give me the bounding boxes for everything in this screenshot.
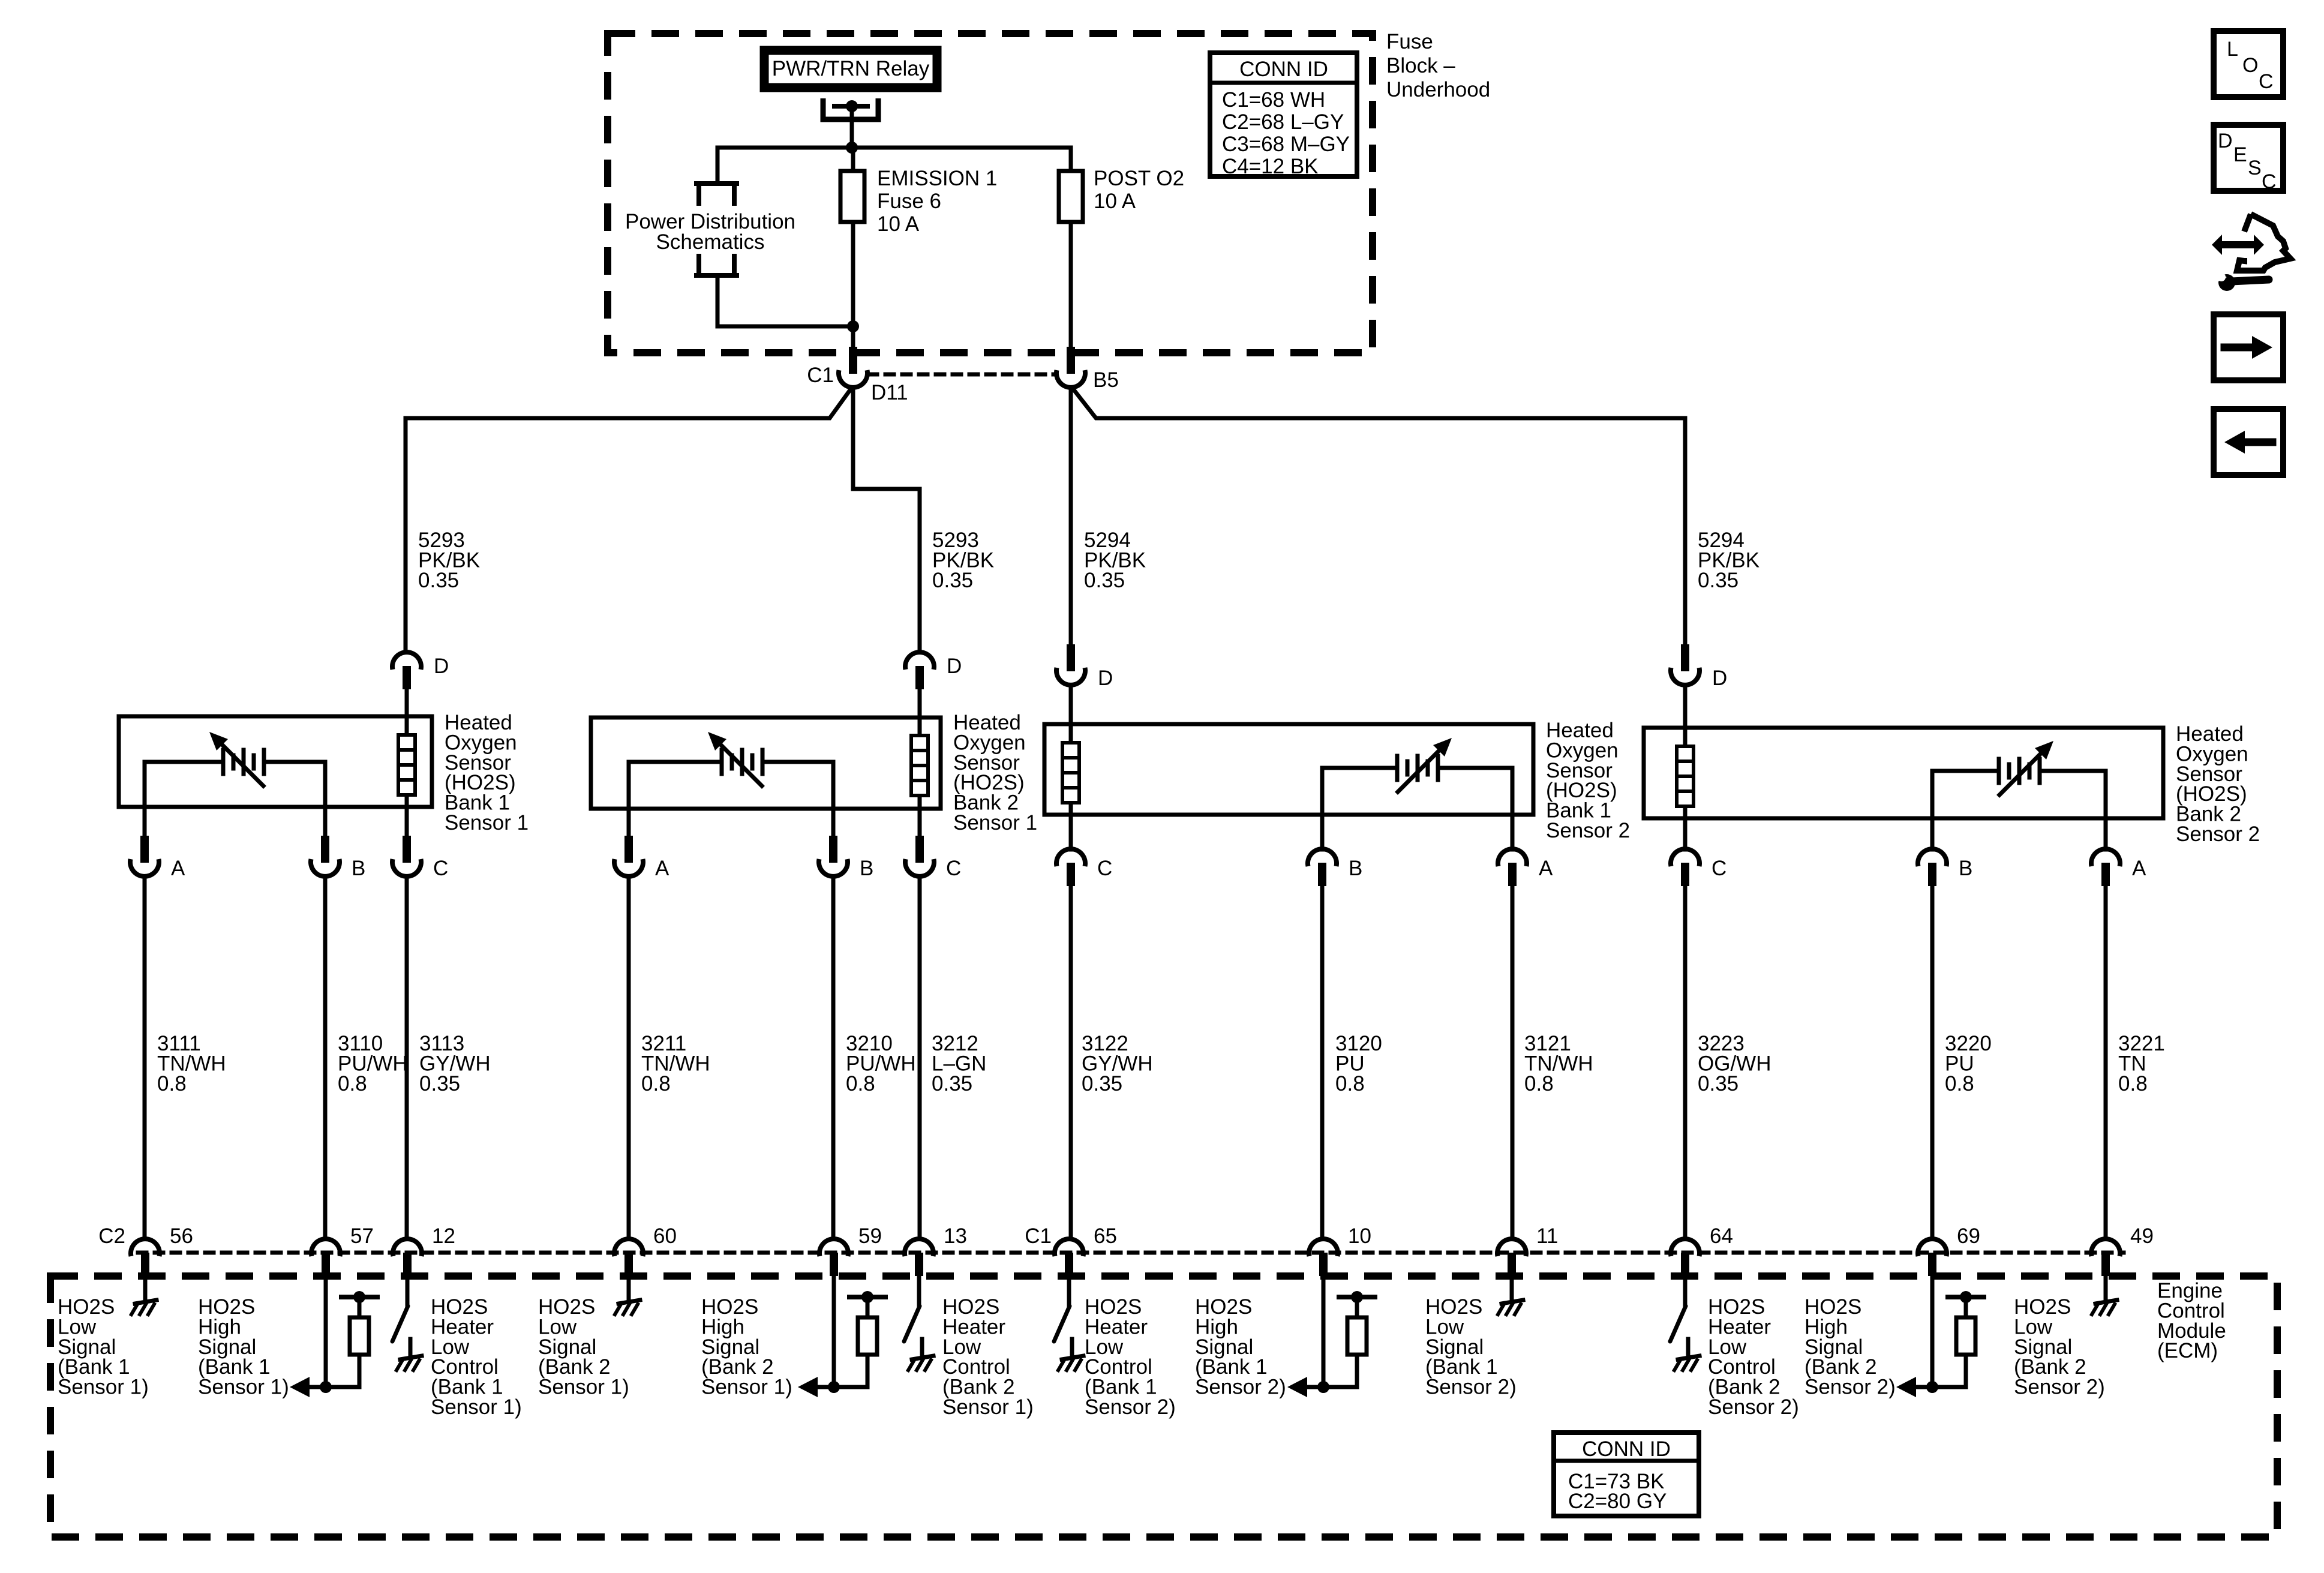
svg-text:10: 10 <box>1348 1224 1371 1248</box>
svg-text:0.35: 0.35 <box>419 1072 460 1095</box>
heater element (B2S1) <box>911 718 928 809</box>
label: wire 3212 L–GN 0.35 <box>932 1032 986 1095</box>
svg-text:0.8: 0.8 <box>157 1072 187 1095</box>
svg-text:C: C <box>433 857 448 880</box>
svg-text:C: C <box>946 857 961 880</box>
svg-text:Sensor 2): Sensor 2) <box>1085 1395 1176 1419</box>
svg-text:Fuse 6: Fuse 6 <box>877 190 941 213</box>
connector B5 (fuse block) <box>1056 347 1085 388</box>
switch to ground (pin 13) <box>904 1273 933 1370</box>
connector D (HO2S Bank 1 Sensor 2) <box>1056 644 1085 724</box>
svg-text:13: 13 <box>944 1224 967 1248</box>
label: HO2S High Signal (Bank 1 Sensor 1) <box>198 1295 289 1399</box>
label: HO2S High Signal (Bank 2 Sensor 2) <box>1804 1295 1896 1399</box>
svg-text:57: 57 <box>350 1224 374 1248</box>
svg-text:C2=68 L–GY: C2=68 L–GY <box>1222 110 1344 134</box>
svg-text:64: 64 <box>1710 1224 1733 1248</box>
svg-text:C1: C1 <box>1025 1224 1052 1248</box>
connector ECM pin 69 <box>1918 1239 1947 1276</box>
svg-text:C1: C1 <box>807 364 834 387</box>
label: D (B2S1) <box>947 655 962 678</box>
label: pin A <box>171 857 185 880</box>
svg-text:Sensor 1): Sensor 1) <box>198 1376 289 1399</box>
wire: bus to POST O2 fuse <box>1069 148 1073 171</box>
label: pin 59 <box>858 1224 882 1248</box>
label: pin C <box>1097 857 1112 880</box>
label: pin 60 <box>653 1224 677 1248</box>
svg-text:D: D <box>2218 130 2233 152</box>
label: pin 64 <box>1710 1224 1733 1248</box>
svg-text:C2: C2 <box>98 1224 125 1248</box>
svg-text:C4=12 BK: C4=12 BK <box>1222 155 1319 178</box>
svg-text:D: D <box>1712 667 1727 690</box>
label: C1 <box>807 364 834 387</box>
wire: bus to EMISSION 1 fuse <box>851 148 855 171</box>
svg-text:A: A <box>171 857 185 880</box>
svg-text:0.35: 0.35 <box>1082 1072 1122 1095</box>
icon: forward arrow box <box>2214 314 2283 380</box>
icon: vehicle navigation (arrows, outline, wrench) <box>2212 214 2290 291</box>
svg-text:C: C <box>1097 857 1112 880</box>
svg-text:Sensor 2: Sensor 2 <box>2176 822 2260 846</box>
label: pin C <box>946 857 961 880</box>
label: D (B2S2) <box>1712 667 1727 690</box>
label: Power Distribution Schematics <box>625 210 795 254</box>
svg-text:B: B <box>860 857 873 880</box>
label: pin A <box>655 857 669 880</box>
svg-text:O: O <box>2242 54 2258 77</box>
svg-text:B: B <box>1349 857 1362 880</box>
label: HO2S High Signal (Bank 2 Sensor 1) <box>701 1295 792 1399</box>
svg-text:A: A <box>1539 857 1553 880</box>
svg-text:0.8: 0.8 <box>1335 1072 1365 1095</box>
label: pin B <box>1349 857 1362 880</box>
label: D11 <box>871 381 908 404</box>
connector ECM pin 57 <box>311 1239 340 1276</box>
svg-text:C1=68 WH: C1=68 WH <box>1222 88 1325 112</box>
table: CONN ID (ECM) <box>1554 1433 1699 1516</box>
svg-text:D: D <box>947 655 962 678</box>
svg-text:C: C <box>1712 857 1727 880</box>
svg-text:Block –: Block – <box>1386 54 1455 77</box>
svg-text:Sensor 2): Sensor 2) <box>1195 1376 1286 1399</box>
svg-text:0.35: 0.35 <box>1698 569 1739 592</box>
wire: power distribution return to bus <box>717 275 853 326</box>
fuse EMISSION 1 Fuse 6 10A <box>840 171 864 222</box>
label: 5293 PK/BK 0.35 (left) <box>418 529 480 592</box>
connector pin A (sensor 3) <box>1498 815 1527 1239</box>
connector pin B (sensor 3) <box>1308 815 1337 1239</box>
svg-text:Sensor 1: Sensor 1 <box>953 811 1037 834</box>
ground (pin 49) <box>2092 1273 2117 1314</box>
connector ECM pin 12 <box>393 1239 422 1276</box>
label: wire 3122 GY/WH 0.35 <box>1082 1032 1153 1095</box>
svg-text:B: B <box>352 857 365 880</box>
resistor + sense arrow (pin 69) <box>1896 1273 1984 1397</box>
svg-text:Sensor 1): Sensor 1) <box>942 1395 1034 1419</box>
label: 5294 PK/BK 0.35 (right) <box>1698 529 1759 592</box>
wire 5293 (PK/BK) left branch to HO2S B1S1 D <box>406 388 852 652</box>
svg-text:B5: B5 <box>1093 368 1119 392</box>
svg-text:D: D <box>434 655 449 678</box>
svg-text:69: 69 <box>1957 1224 1980 1248</box>
svg-text:59: 59 <box>858 1224 882 1248</box>
heater element (B1S1) <box>398 716 415 807</box>
switch to ground (pin 12) <box>392 1273 422 1370</box>
label: HO2S Heater Low Control (Bank 1 Sensor 2) <box>1085 1295 1176 1419</box>
svg-text:Sensor 1): Sensor 1) <box>431 1395 522 1419</box>
dotted connector interface line (fuse block) <box>869 373 1056 377</box>
relay contact symbol <box>823 98 878 148</box>
svg-text:E: E <box>2233 143 2247 166</box>
label: wire 3121 TN/WH 0.8 <box>1524 1032 1593 1095</box>
svg-text:Sensor 1): Sensor 1) <box>538 1376 629 1399</box>
label: Heated Oxygen Sensor (HO2S) Bank 2 Sensor 1 <box>953 711 1037 834</box>
connector ECM pin 11 <box>1497 1239 1526 1276</box>
heater element (B1S2) <box>1062 724 1079 815</box>
label: Heated Oxygen Sensor (HO2S) Bank 2 Sensor 2 <box>2176 722 2260 846</box>
label: POST O2 / 10 A <box>1094 167 1184 213</box>
label: pin 49 <box>2130 1224 2154 1248</box>
svg-text:C2=80 GY: C2=80 GY <box>1568 1490 1667 1513</box>
label: B5 <box>1093 368 1119 392</box>
fuse block - underhood (dashed box) <box>608 34 1373 353</box>
label: HO2S Heater Low Control (Bank 2 Sensor 1) <box>942 1295 1034 1419</box>
svg-text:A: A <box>655 857 669 880</box>
connector ECM pin 60 <box>614 1239 643 1276</box>
connector ECM pin 65 <box>1055 1239 1083 1276</box>
label: 5294 PK/BK 0.35 (middle) <box>1084 529 1146 592</box>
icon: back arrow box <box>2214 409 2283 475</box>
svg-text:10 A: 10 A <box>877 212 920 236</box>
label: wire 3211 TN/WH 0.8 <box>641 1032 710 1095</box>
ground (pin 56) <box>131 1273 157 1314</box>
junction: below EMISSION fuse <box>847 320 859 332</box>
sensing element (B1S2) <box>1322 738 1512 815</box>
label: pin A <box>1539 857 1553 880</box>
svg-text:S: S <box>2248 157 2262 179</box>
svg-text:D: D <box>1098 667 1113 690</box>
connector pin B (sensor 2) <box>819 809 848 1239</box>
label: wire 3113 GY/WH 0.35 <box>419 1032 491 1095</box>
icon: DESC box <box>2214 125 2283 193</box>
wire: bus horizontal <box>717 146 1071 150</box>
label: wire 3220 PU 0.8 <box>1945 1032 1992 1095</box>
svg-text:C3=68 M–GY: C3=68 M–GY <box>1222 133 1350 156</box>
svg-text:Sensor 2: Sensor 2 <box>1546 819 1630 842</box>
svg-text:Sensor 2): Sensor 2) <box>1425 1376 1517 1399</box>
connector pin A (sensor 2) <box>614 809 643 1239</box>
svg-text:11: 11 <box>1536 1224 1558 1248</box>
ECM dashed box <box>50 1276 2277 1537</box>
sensor box: HO2S Bank 2 Sensor 1 <box>591 718 941 809</box>
connector pin A (sensor 4) <box>2091 818 2120 1239</box>
label: HO2S Low Signal (Bank 1 Sensor 2) <box>1425 1295 1517 1399</box>
label: HO2S Low Signal (Bank 2 Sensor 2) <box>2014 1295 2105 1399</box>
sensor box: HO2S Bank 2 Sensor 2 <box>1644 728 2163 818</box>
sensor box: HO2S Bank 1 Sensor 1 <box>119 716 432 807</box>
label: pin B <box>860 857 873 880</box>
connector pin B (sensor 4) <box>1918 818 1947 1239</box>
svg-text:Sensor 1: Sensor 1 <box>445 811 529 834</box>
svg-text:CONN ID: CONN ID <box>1582 1437 1671 1461</box>
resistor + sense arrow (pin 59) <box>798 1273 885 1397</box>
sensing element (B2S2) <box>1932 741 2106 818</box>
icon: LOC box <box>2214 31 2283 97</box>
svg-text:Fuse: Fuse <box>1386 30 1433 53</box>
off-page reference top bracket <box>696 184 737 203</box>
label: HO2S High Signal (Bank 1 Sensor 2) <box>1195 1295 1286 1399</box>
connector pin B (sensor 1) <box>311 807 340 1239</box>
svg-text:C: C <box>2259 70 2274 93</box>
label: wire 3221 TN 0.8 <box>2118 1032 2165 1095</box>
connector ECM pin 56 <box>131 1239 160 1276</box>
table: CONN ID (fuse block) <box>1210 53 1357 178</box>
label: HO2S Heater Low Control (Bank 2 Sensor 2) <box>1708 1295 1799 1419</box>
label: pin 11 <box>1536 1224 1558 1248</box>
off-page reference bottom bracket <box>696 256 737 275</box>
label: 5293 PK/BK 0.35 (middle) <box>932 529 994 592</box>
fuse POST O2 10A <box>1059 171 1083 222</box>
svg-text:0.8: 0.8 <box>1945 1072 1974 1095</box>
label: D (B1S2) <box>1098 667 1113 690</box>
connector ECM pin 59 <box>819 1239 848 1276</box>
svg-text:B: B <box>1959 857 1972 880</box>
svg-text:Sensor 1): Sensor 1) <box>58 1376 149 1399</box>
svg-text:A: A <box>2132 857 2146 880</box>
label: wire 3120 PU 0.8 <box>1335 1032 1382 1095</box>
label: pin 65 <box>1094 1224 1117 1248</box>
label: pin 56 <box>170 1224 193 1248</box>
svg-text:0.35: 0.35 <box>418 569 459 592</box>
label: pin 10 <box>1348 1224 1371 1248</box>
label: wire 3111 TN/WH 0.8 <box>157 1032 226 1095</box>
label: Heated Oxygen Sensor (HO2S) Bank 1 Sensor 2 <box>1546 719 1630 842</box>
connector ECM pin 49 <box>2091 1239 2120 1276</box>
svg-text:(ECM): (ECM) <box>2157 1339 2218 1362</box>
label: pin C <box>433 857 448 880</box>
svg-text:PWR/TRN Relay: PWR/TRN Relay <box>772 57 930 80</box>
label: pin 57 <box>350 1224 374 1248</box>
label: pin 69 <box>1957 1224 1980 1248</box>
label: pin C <box>1712 857 1727 880</box>
svg-text:10 A: 10 A <box>1094 190 1136 213</box>
label: HO2S Low Signal (Bank 2 Sensor 1) <box>538 1295 629 1399</box>
relay PWR/TRN Relay (box) <box>764 50 937 88</box>
svg-text:65: 65 <box>1094 1224 1117 1248</box>
label: pin B <box>352 857 365 880</box>
label: Engine Control Module (ECM) <box>2157 1279 2226 1362</box>
label: HO2S Low Signal (Bank 1 Sensor 1) <box>58 1295 149 1399</box>
svg-text:Sensor 2): Sensor 2) <box>1804 1376 1896 1399</box>
connector pin C (sensor 1) <box>392 807 421 1239</box>
svg-text:CONN ID: CONN ID <box>1239 58 1328 81</box>
svg-text:0.8: 0.8 <box>1524 1072 1554 1095</box>
svg-text:0.35: 0.35 <box>932 569 973 592</box>
svg-text:L: L <box>2227 38 2238 61</box>
label: wire 3223 OG/WH 0.35 <box>1698 1032 1771 1095</box>
connector D (HO2S Bank 2 Sensor 2) <box>1671 644 1700 728</box>
connector pin A (sensor 1) <box>130 807 159 1239</box>
svg-text:C: C <box>2262 170 2277 193</box>
label: pin B <box>1959 857 1972 880</box>
wire 5293 (PK/BK) right branch to HO2S B2S1 D <box>853 388 920 652</box>
svg-text:0.8: 0.8 <box>338 1072 367 1095</box>
resistor + sense arrow (pin 57) <box>290 1273 377 1397</box>
svg-text:POST O2: POST O2 <box>1094 167 1184 190</box>
svg-text:49: 49 <box>2130 1224 2154 1248</box>
svg-text:0.8: 0.8 <box>641 1072 671 1095</box>
connector pin C (sensor 4) <box>1671 818 1700 1239</box>
svg-text:0.35: 0.35 <box>1698 1072 1739 1095</box>
label: wire 3210 PU/WH 0.8 <box>846 1032 916 1095</box>
svg-text:D11: D11 <box>871 381 908 404</box>
svg-text:Underhood: Underhood <box>1386 78 1490 101</box>
svg-text:60: 60 <box>653 1224 677 1248</box>
connector ECM pin 64 <box>1671 1239 1700 1276</box>
svg-text:0.35: 0.35 <box>1084 569 1125 592</box>
label: wire 3110 PU/WH 0.8 <box>338 1032 408 1095</box>
resistor + sense arrow (pin 10) <box>1287 1273 1375 1397</box>
wire: POST O2 fuse to B5 <box>1069 222 1073 348</box>
svg-text:0.8: 0.8 <box>2118 1072 2148 1095</box>
svg-text:Sensor 2): Sensor 2) <box>2014 1376 2105 1399</box>
label: pin 13 <box>944 1224 967 1248</box>
label: C1 (ECM connector) <box>1025 1224 1052 1248</box>
sensing element (B1S1) <box>145 732 325 807</box>
connector pin C (sensor 3) <box>1056 815 1085 1239</box>
svg-text:EMISSION 1: EMISSION 1 <box>877 167 997 190</box>
heater element (B2S2) <box>1677 728 1694 818</box>
wire 5294 (PK/BK) branch to HO2S B2S2 D <box>1072 388 1685 645</box>
svg-text:56: 56 <box>170 1224 193 1248</box>
connector pin C (sensor 2) <box>905 809 934 1239</box>
ground (pin 60) <box>615 1273 640 1314</box>
label: Fuse Block - Underhood <box>1386 30 1490 101</box>
svg-text:12: 12 <box>432 1224 455 1248</box>
sensing element (B2S1) <box>629 732 833 809</box>
svg-text:Schematics: Schematics <box>656 230 765 254</box>
ground (pin 11) <box>1498 1273 1523 1314</box>
svg-text:Sensor 1): Sensor 1) <box>701 1376 792 1399</box>
connector C1 pin D11 (fuse block) <box>839 347 867 388</box>
connector D (HO2S Bank 2 Sensor 1) <box>905 652 934 718</box>
label: EMISSION 1 / Fuse 6 / 10 A <box>877 167 997 236</box>
label: D (B1S1) <box>434 655 449 678</box>
svg-text:0.8: 0.8 <box>846 1072 875 1095</box>
label: Heated Oxygen Sensor (HO2S) Bank 1 Sensor 1 <box>445 711 529 834</box>
label: C2 (ECM connector) <box>98 1224 125 1248</box>
svg-text:Sensor 2): Sensor 2) <box>1708 1395 1799 1419</box>
connector ECM pin 10 <box>1309 1239 1338 1276</box>
svg-text:0.35: 0.35 <box>932 1072 972 1095</box>
junction: relay output bus <box>846 142 858 154</box>
label: HO2S Heater Low Control (Bank 1 Sensor 1) <box>431 1295 522 1419</box>
switch to ground (pin 64) <box>1670 1273 1700 1370</box>
connector D (HO2S Bank 1 Sensor 1) <box>392 652 421 716</box>
connector ECM pin 13 <box>905 1239 933 1276</box>
wire: EMISSION 1 fuse to C1 <box>851 222 855 348</box>
wire: branch to power distribution <box>716 148 720 182</box>
dotted connector interface line (ECM) <box>138 1251 2124 1255</box>
label: pin 12 <box>432 1224 455 1248</box>
label: pin A <box>2132 857 2146 880</box>
switch to ground (pin 65) <box>1054 1273 1083 1370</box>
sensor box: HO2S Bank 1 Sensor 2 <box>1044 724 1533 815</box>
wire 5294 (PK/BK) to HO2S B1S2 D <box>1069 388 1073 645</box>
